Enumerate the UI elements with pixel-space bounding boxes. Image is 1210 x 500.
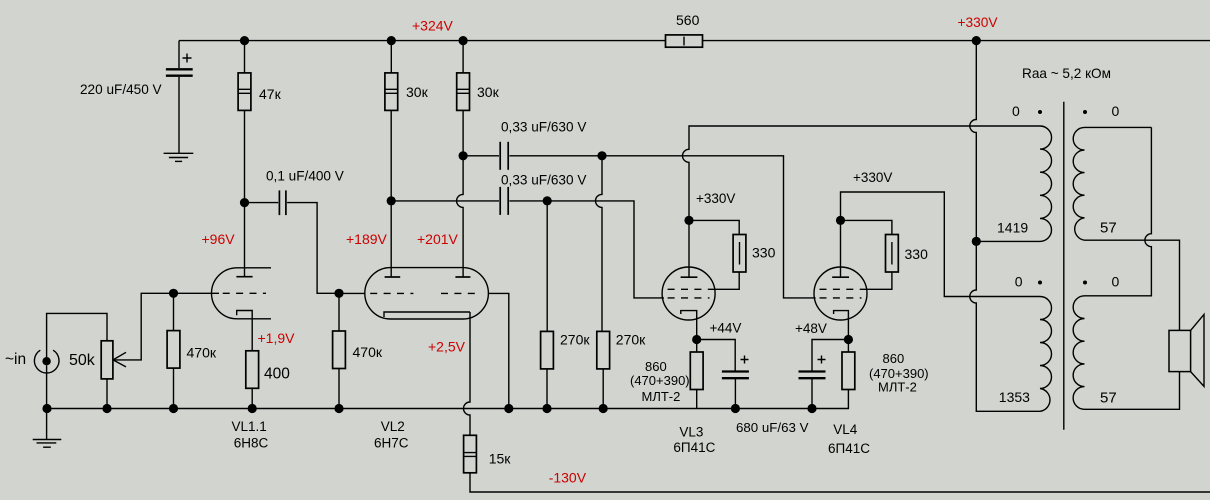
node C3 left tap xyxy=(459,151,468,160)
ground symbol at input xyxy=(33,409,62,448)
svg-text:VL4: VL4 xyxy=(833,422,858,437)
svg-text:0,33 uF/630 V: 0,33 uF/630 V xyxy=(501,120,586,135)
svg-text:1353: 1353 xyxy=(999,389,1030,405)
resistor R14 330 screen VL4 xyxy=(841,220,899,289)
svg-text:+48V: +48V xyxy=(795,321,827,336)
svg-text:860: 860 xyxy=(883,351,905,366)
svg-text:VL2: VL2 xyxy=(381,419,405,434)
svg-text:470к: 470к xyxy=(187,345,217,361)
svg-text:270к: 270к xyxy=(560,332,590,348)
svg-text:330: 330 xyxy=(752,245,776,261)
svg-text:(470+390): (470+390) xyxy=(630,373,690,388)
capacitor C5 680uF/63V VL3 xyxy=(697,340,749,409)
node grid VL1 junction xyxy=(169,289,178,298)
wire VL4 anode riser xyxy=(841,192,1041,297)
svg-text:330: 330 xyxy=(905,246,929,262)
capacitor C4 0.33uF/630V lower xyxy=(391,187,547,215)
wire top supply rail left (+324V rail) xyxy=(179,40,666,42)
resistor R9 15k xyxy=(464,435,1210,492)
resistor R13 860 cathode VL3 xyxy=(690,352,703,409)
tube VL2 double triode xyxy=(339,268,509,436)
potentiometer R5 50k xyxy=(101,293,173,408)
resistor R3 30k xyxy=(457,41,470,277)
transformer T1 core xyxy=(1063,102,1065,430)
node +330V top rail xyxy=(972,36,981,45)
svg-text:0: 0 xyxy=(1112,274,1120,290)
svg-text:470к: 470к xyxy=(353,344,383,360)
svg-text:+2,5V: +2,5V xyxy=(428,339,466,355)
svg-text:-130V: -130V xyxy=(549,470,587,486)
node junction 47k/0.1uF xyxy=(240,198,249,207)
svg-text:0,33 uF/630 V: 0,33 uF/630 V xyxy=(501,173,586,188)
node R11/rail xyxy=(599,404,608,413)
node VL4 cathode xyxy=(844,335,853,344)
svg-text:6Н8С: 6Н8С xyxy=(234,436,269,451)
node VL2 second grid to rail xyxy=(504,404,513,413)
wire top supply rail right (to +330V) xyxy=(703,40,1210,42)
svg-text:0: 0 xyxy=(1012,103,1020,119)
svg-text:МЛТ-2: МЛТ-2 xyxy=(878,379,917,394)
node C6/rail xyxy=(807,404,816,413)
svg-text:+201V: +201V xyxy=(417,231,459,247)
node R8/rail xyxy=(334,404,343,413)
transformer T1 secondary lower winding 57 xyxy=(1073,296,1179,410)
svg-text:57: 57 xyxy=(1100,220,1117,237)
svg-text:0: 0 xyxy=(1112,103,1120,119)
speaker LS1 xyxy=(1169,314,1204,386)
svg-text:0,1 uF/400 V: 0,1 uF/400 V xyxy=(266,169,344,184)
svg-text:15к: 15к xyxy=(489,451,512,467)
node VL3 anode xyxy=(684,216,693,225)
node C5/rail xyxy=(731,404,740,413)
svg-text:6Н7С: 6Н7С xyxy=(374,436,409,451)
node C4 right junction xyxy=(543,196,552,205)
node +330V center tap xyxy=(972,237,981,246)
svg-text:VL3: VL3 xyxy=(679,425,703,440)
capacitor C6 680uF/63V VL4 xyxy=(799,340,849,409)
svg-text:47к: 47к xyxy=(259,86,282,102)
resistor R12 330 screen VL3 xyxy=(689,220,746,289)
polarity dot primary upper xyxy=(1038,110,1042,114)
node VL4 anode xyxy=(836,216,845,225)
transformer T1 primary lower winding 1353 xyxy=(1040,297,1052,412)
svg-text:0: 0 xyxy=(1015,274,1023,290)
svg-text:560: 560 xyxy=(676,12,700,28)
input jack X1 xyxy=(34,313,107,408)
node C3 right junction xyxy=(597,151,606,160)
node R10/rail xyxy=(542,404,551,413)
capacitor C2 0.1uF/400V coupling xyxy=(245,190,340,293)
svg-text:+330V: +330V xyxy=(958,15,999,30)
polarity dot primary lower xyxy=(1038,281,1042,285)
polarity dot secondary upper xyxy=(1083,110,1087,114)
resistor R4 560 xyxy=(666,35,703,47)
capacitor C1 220uF/450V xyxy=(166,41,193,154)
svg-text:+189V: +189V xyxy=(346,231,388,247)
svg-text:+96V: +96V xyxy=(202,231,236,247)
node pot/rail xyxy=(102,404,111,413)
node top rail at R2 xyxy=(387,36,396,45)
svg-text:6П41С: 6П41С xyxy=(828,441,870,456)
node R6/rail xyxy=(169,404,178,413)
svg-text:680 uF/63 V: 680 uF/63 V xyxy=(736,420,809,435)
svg-text:400: 400 xyxy=(264,366,290,383)
resistor R1 47k xyxy=(238,41,251,277)
svg-text:+324V: +324V xyxy=(412,18,454,34)
svg-text:VL1.1: VL1.1 xyxy=(232,419,267,434)
resistor R2 30k xyxy=(385,41,398,277)
svg-text:+330V: +330V xyxy=(696,191,735,206)
ground symbol at C1 xyxy=(164,153,194,161)
svg-text:+1,9V: +1,9V xyxy=(258,330,296,346)
svg-text:50k: 50k xyxy=(69,352,96,369)
svg-text:220 uF/450 V: 220 uF/450 V xyxy=(80,82,162,97)
svg-text:30к: 30к xyxy=(477,84,500,100)
polarity dot secondary lower xyxy=(1083,281,1087,285)
wire C4 to VL3 grid xyxy=(547,201,664,298)
resistor R15 860 cathode VL4 xyxy=(842,352,855,390)
tube VL4 output xyxy=(814,267,867,352)
resistor R11 270k grid VL4 xyxy=(596,156,610,409)
tube VL1.1 triode xyxy=(174,268,272,351)
node top rail at R3 xyxy=(459,36,468,45)
svg-text:Raa ~ 5,2 кОм: Raa ~ 5,2 кОм xyxy=(1022,66,1111,81)
node R7/rail xyxy=(248,404,257,413)
node top rail at R1 xyxy=(240,36,249,45)
wire C3 to VL4 grid xyxy=(602,156,816,298)
svg-text:+44V: +44V xyxy=(710,321,742,336)
resistor R8 470k grid leak VL2 xyxy=(333,293,346,408)
wire ground rail xyxy=(47,390,848,409)
transformer T1 primary upper winding 1419 xyxy=(976,126,1051,241)
svg-text:~in: ~in xyxy=(5,351,26,368)
transformer T1 secondary upper winding 57 xyxy=(1073,127,1179,330)
resistor R7 400 cathode VL1 xyxy=(246,351,259,409)
svg-text:57: 57 xyxy=(1100,390,1117,407)
svg-text:МЛТ-2: МЛТ-2 xyxy=(642,389,681,404)
svg-text:270к: 270к xyxy=(616,332,646,348)
tube VL3 output xyxy=(662,267,715,352)
svg-text:+330V: +330V xyxy=(853,170,892,185)
svg-text:30к: 30к xyxy=(406,84,429,100)
svg-text:6П41С: 6П41С xyxy=(673,440,715,455)
node C4 left tap xyxy=(387,196,396,205)
wire VL3 anode riser xyxy=(683,126,1040,277)
resistor R10 270k grid VL3 xyxy=(541,201,554,409)
svg-text:860: 860 xyxy=(645,359,667,374)
resistor R6 470k grid leak VL1 xyxy=(167,293,180,408)
node grid VL2 junction xyxy=(334,289,343,298)
capacitor C3 0.33uF/630V upper xyxy=(463,142,602,170)
wire +330V supply riser xyxy=(970,41,1040,412)
node input/ground rail xyxy=(42,404,51,413)
svg-text:1419: 1419 xyxy=(997,220,1028,236)
node VL3 cathode xyxy=(692,335,701,344)
